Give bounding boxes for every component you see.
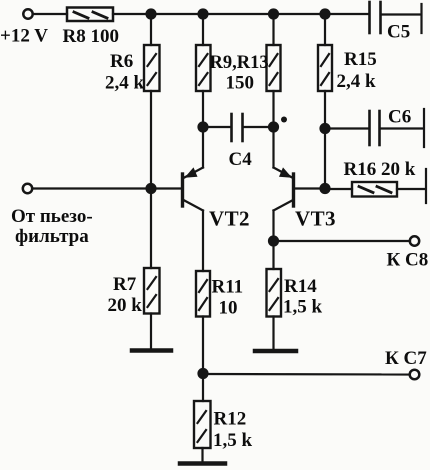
node emitter VT3 / C4 right — [268, 121, 279, 132]
node R11/R12/KC7 — [197, 368, 208, 379]
terminal K C8 — [410, 236, 419, 245]
svg-text:VT3: VT3 — [295, 207, 336, 231]
node rail-R15 — [319, 8, 330, 19]
svg-text:1,5 k: 1,5 k — [283, 297, 323, 318]
svg-text:2,4 k: 2,4 k — [337, 71, 377, 92]
svg-text:R15: R15 — [344, 49, 377, 70]
wire node to R12 — [202, 374, 204, 402]
svg-text:20 k: 20 k — [108, 295, 143, 316]
svg-text:10: 10 — [219, 298, 238, 319]
svg-text:+12 V: +12 V — [0, 26, 48, 47]
ground R14 — [255, 349, 296, 354]
resistor R8 — [67, 8, 113, 22]
svg-text:R7: R7 — [113, 274, 137, 295]
wire C6 node to R16 node — [324, 129, 326, 189]
svg-text:R8 100: R8 100 — [63, 26, 119, 47]
wire rail to R15 — [324, 14, 326, 45]
svg-text:2,4 k: 2,4 k — [105, 73, 145, 94]
svg-text:C6: C6 — [388, 107, 411, 128]
wire R14 to ground — [272, 317, 274, 350]
resistor R6 — [144, 45, 160, 91]
wire R7 to ground — [150, 314, 152, 349]
node rail-R13 — [268, 8, 279, 19]
svg-text:От пьезо-: От пьезо- — [11, 206, 93, 227]
svg-text:R6: R6 — [110, 51, 133, 72]
node emitter VT2 / C4 left — [197, 121, 208, 132]
node rail-R9 — [197, 8, 208, 19]
resistor R14 — [267, 269, 282, 317]
svg-text:R11: R11 — [212, 277, 244, 298]
wire rail to R6 — [150, 14, 152, 45]
resistor R9 — [196, 45, 211, 91]
ground R12 — [180, 461, 225, 466]
capacitor C5 — [370, 2, 381, 33]
svg-text:R16 20 k: R16 20 k — [344, 159, 416, 180]
wire right edge stub at R16 — [425, 169, 427, 203]
terminal +12V input — [23, 9, 32, 18]
terminal K C7 — [410, 370, 420, 380]
node asterisk mark — [281, 117, 287, 123]
svg-text:150: 150 — [226, 73, 255, 94]
resistor R13 — [267, 45, 281, 91]
resistor R15 — [318, 45, 332, 91]
capacitor C4 — [203, 114, 274, 141]
node R16 tap / VT3 base — [319, 183, 330, 194]
svg-text:R9,R13: R9,R13 — [210, 53, 269, 73]
wire C5 to right edge — [382, 13, 421, 15]
svg-text:фильтра: фильтра — [15, 226, 89, 247]
svg-text:R14: R14 — [284, 276, 317, 297]
wire input terminal to VT2 base — [33, 187, 182, 189]
resistor R7 — [144, 268, 160, 314]
wire rail to R9 — [202, 14, 204, 45]
wire right edge stub at C6 — [423, 109, 425, 147]
wire right edge stub at C5 — [420, 4, 422, 33]
wire R9 to emitter node — [202, 91, 204, 127]
wire VT3 base to R16 node — [295, 187, 326, 189]
wire input node to R7 — [150, 189, 152, 269]
resistor R11 — [196, 271, 210, 317]
ground R7 — [132, 348, 171, 353]
wire R15 to C6 node — [324, 91, 326, 129]
svg-text:К С7: К С7 — [385, 348, 427, 369]
wire KC7 — [203, 373, 410, 376]
transistor VT3 — [274, 127, 294, 241]
svg-text:R12: R12 — [214, 409, 247, 430]
wire R11 to C7 node — [202, 317, 204, 374]
svg-text:C4: C4 — [229, 149, 253, 170]
wire rail to R13 — [272, 14, 274, 45]
capacitor C6 — [331, 111, 424, 145]
wire top rail R8 to C5 — [113, 13, 369, 15]
node rail-R6 — [145, 8, 156, 19]
svg-text:К С8: К С8 — [387, 250, 429, 271]
node input/base VT2 — [145, 183, 156, 194]
wire R6 to input node — [150, 91, 152, 189]
node C6 tap — [319, 123, 330, 134]
node collector VT3 / KC8 — [268, 235, 279, 246]
resistor R12 — [194, 401, 211, 448]
svg-text:1,5 k: 1,5 k — [213, 430, 253, 451]
wire KC8 — [274, 240, 411, 242]
wire R12 to ground — [201, 448, 203, 462]
terminal input from piezo filter — [23, 184, 32, 193]
wire node to R14 — [272, 241, 274, 269]
resistor R16 — [325, 182, 426, 197]
transistor VT2 — [183, 127, 204, 271]
svg-text:VT2: VT2 — [209, 207, 250, 231]
wire +12V terminal to R8 — [33, 13, 67, 15]
wire R13 to emitter node — [272, 91, 274, 127]
svg-text:C5: C5 — [387, 22, 410, 43]
